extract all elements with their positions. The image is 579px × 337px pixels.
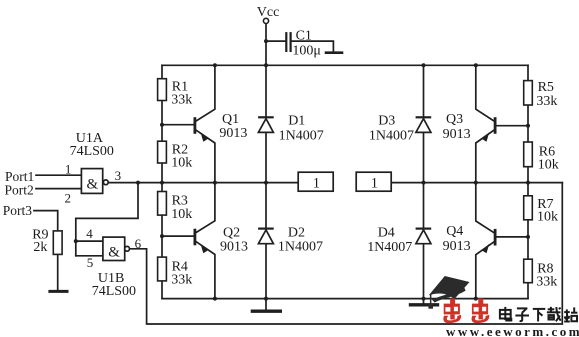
svg-text:9013: 9013: [219, 126, 247, 141]
svg-text:9013: 9013: [443, 239, 471, 254]
svg-text:D2: D2: [288, 226, 305, 241]
svg-text:5: 5: [87, 255, 94, 270]
svg-text:1N4007: 1N4007: [367, 240, 412, 255]
svg-text:10k: 10k: [538, 158, 559, 173]
svg-text:6: 6: [135, 236, 142, 251]
svg-text:9013: 9013: [443, 127, 471, 142]
svg-text:4: 4: [86, 226, 93, 241]
svg-text:D4: D4: [378, 226, 395, 241]
svg-text:33k: 33k: [536, 94, 557, 109]
svg-text:D3: D3: [378, 114, 395, 129]
svg-text:1N4007: 1N4007: [278, 240, 323, 255]
svg-text:C1: C1: [296, 29, 312, 44]
svg-text:1N4007: 1N4007: [279, 128, 324, 143]
svg-text:www.eeworm.com: www.eeworm.com: [446, 324, 579, 337]
svg-text:1: 1: [371, 176, 378, 192]
svg-text:D1: D1: [288, 114, 305, 129]
svg-text:2: 2: [65, 190, 72, 205]
svg-text:74LS00: 74LS00: [70, 144, 114, 159]
svg-text:Q1: Q1: [222, 112, 239, 127]
svg-text:100μ: 100μ: [292, 44, 321, 59]
svg-text:10k: 10k: [171, 207, 192, 222]
svg-text:Port2: Port2: [5, 183, 34, 198]
svg-text:10k: 10k: [537, 210, 558, 225]
svg-text:74LS00: 74LS00: [92, 284, 136, 299]
svg-text:33k: 33k: [171, 92, 192, 107]
svg-text:3: 3: [115, 168, 122, 183]
svg-text:&: &: [108, 245, 120, 261]
svg-text:9013: 9013: [220, 240, 248, 255]
svg-text:33k: 33k: [536, 275, 557, 290]
svg-text:10k: 10k: [171, 155, 192, 170]
svg-text:2k: 2k: [33, 240, 47, 255]
svg-text:Vcc: Vcc: [257, 5, 280, 20]
svg-text:Q2: Q2: [223, 226, 240, 241]
svg-text:Q4: Q4: [446, 224, 463, 239]
svg-text:1: 1: [65, 162, 72, 177]
svg-text:1: 1: [313, 176, 320, 192]
svg-text:33k: 33k: [171, 273, 192, 288]
svg-text:1N4007: 1N4007: [369, 128, 414, 143]
svg-text:Q3: Q3: [446, 112, 463, 127]
svg-text:Port3: Port3: [3, 203, 33, 218]
svg-text:&: &: [87, 177, 99, 193]
